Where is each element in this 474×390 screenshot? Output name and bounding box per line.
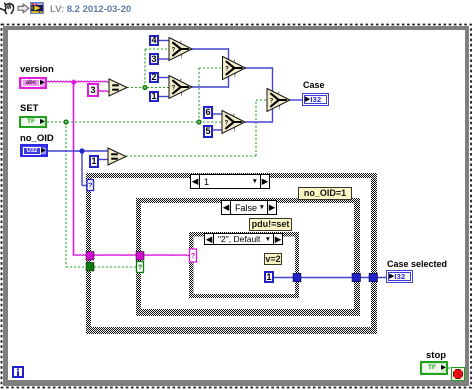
toolbar title text — [50, 4, 131, 15]
indicator Case selected (I32) — [386, 270, 413, 283]
numeric constant 5 — [203, 125, 213, 138]
case selector label (inner) '"2", Default' — [204, 233, 283, 245]
junction boolean dot at Equal1 output branch — [142, 85, 147, 90]
case selector label (middle) "False" — [221, 200, 277, 215]
tunnel boolean on outer case left border — [86, 263, 94, 272]
svg-text:f: f — [181, 92, 183, 98]
select U4 — [222, 111, 245, 134]
terminal SET (boolean control) — [19, 116, 47, 128]
svg-text:f: f — [234, 127, 236, 133]
svg-text:?: ? — [172, 48, 176, 54]
svg-text:?: ? — [88, 181, 93, 190]
select U3 — [223, 57, 246, 80]
wire select U4 output to select U5 — [245, 107, 273, 122]
wire constant 6 to select U4 — [212, 113, 224, 115]
wire boolean vertical up to select U1 selector — [144, 49, 146, 88]
case structure outer (no_OID=1 case) frame — [86, 173, 377, 334]
wire Equal1 output boolean to select U2 selector — [127, 87, 170, 89]
terminal stop (boolean control) — [420, 361, 448, 375]
string constant 3 — [87, 83, 99, 97]
terminal version (string control) — [19, 77, 47, 89]
while loop iteration terminal i — [12, 366, 24, 378]
label Case selected — [387, 259, 447, 269]
tunnel string on outer case left border — [86, 252, 94, 261]
toolbar LabVIEW VI icon — [30, 2, 44, 14]
junction pink node at version branch — [71, 79, 77, 85]
label stop — [426, 350, 446, 361]
wire boolean into select U5 selector — [256, 99, 268, 101]
wire string constant 3 to Equal node — [98, 90, 110, 93]
wire into outer case selector — [82, 185, 88, 187]
label Case — [303, 80, 325, 90]
wire constant 5 to select U4 — [212, 129, 224, 131]
wire select U1 output to select U3 — [192, 49, 229, 61]
svg-text:?: ? — [172, 86, 176, 92]
case selector terminal (inner, string) — [190, 249, 197, 262]
numeric constant 6 — [203, 106, 213, 119]
case selector label (outer) "1" — [190, 174, 270, 189]
tunnel numeric on outer case right border — [369, 273, 378, 282]
wire boolean into select U3 selector — [199, 67, 224, 69]
select U1 — [169, 38, 192, 61]
tunnel string on middle case left border — [136, 252, 144, 261]
label no_OID — [20, 133, 54, 144]
toolbar background — [0, 0, 474, 23]
wire constant 4 to select U1 — [158, 40, 171, 42]
wire SET boolean horizontal into middle case selector — [66, 266, 137, 268]
svg-text:?: ? — [225, 67, 229, 73]
while loop condition terminal (stop sign) — [451, 367, 465, 381]
numeric constant 1 (Equal2 input) — [89, 155, 99, 168]
case selector terminal (outer, numeric) — [87, 180, 94, 191]
numeric constant 1 — [149, 91, 159, 102]
svg-text:f: f — [181, 54, 183, 60]
numeric constant 1 (inner case) — [264, 271, 274, 283]
case structure inner (v=2 case) frame — [189, 232, 299, 298]
indicator Case (I32) — [302, 93, 329, 106]
label version — [20, 64, 54, 75]
wire boolean vertical up to select U5 selector — [255, 100, 257, 156]
case structure middle (pdu!=set case) frame — [136, 198, 360, 316]
wire stop boolean to loop condition terminal — [448, 367, 452, 369]
numeric constant 3 — [149, 53, 159, 65]
free label no_OID=1 — [298, 187, 352, 200]
numeric constant 4 — [149, 35, 159, 46]
wire constant 2 to select U2 — [158, 77, 171, 79]
wire constant 1 to Equal2 node — [97, 159, 110, 161]
junction numeric dot on no_OID wire — [79, 148, 84, 153]
numeric constant 2 — [149, 72, 159, 83]
junction boolean dot at SET branch — [63, 119, 68, 124]
toolbar hand tool icon — [0, 0, 18, 17]
wire no_OID to Equal2 node — [46, 150, 110, 152]
terminal no_OID (U32 control) — [20, 144, 48, 157]
wire constant 3 to select U1 — [158, 58, 171, 60]
wire boolean into select U1 selector — [145, 48, 170, 50]
wire boolean up to select U3 selector — [198, 68, 200, 122]
wire version string horizontal into inner case selector — [73, 254, 190, 257]
wire SET boolean vertical down to case — [65, 122, 67, 267]
svg-text:?: ? — [191, 251, 196, 260]
toolbar run arrow icon — [17, 3, 30, 14]
free label v=2 — [264, 253, 282, 265]
wire constant 1 to select U2 — [158, 96, 171, 98]
svg-text:?: ? — [138, 263, 143, 272]
wire select U5 output to Case indicator — [290, 99, 303, 101]
free label pdu!=set — [249, 218, 292, 231]
select U5 — [267, 89, 290, 112]
wire select U3 output to select U5 — [245, 68, 273, 93]
wire constant 1 through case tunnels to Case selected indicator — [273, 277, 387, 279]
svg-text:?: ? — [270, 99, 274, 105]
label SET — [20, 103, 38, 114]
wire version string vertical down to case tunnels — [73, 82, 75, 256]
junction boolean dot at select U4 selector branch — [196, 119, 201, 124]
svg-text:f: f — [279, 105, 281, 111]
wire SET boolean horizontal to select selectors — [47, 121, 223, 123]
wire version string horizontal to Equal node — [47, 80, 110, 83]
svg-text:?: ? — [225, 121, 229, 127]
select U2 — [169, 76, 192, 99]
tunnel numeric on inner case right border — [293, 273, 301, 282]
wire Equal2 output boolean horizontal — [126, 155, 256, 157]
wire no_OID vertical down to outer case selector — [81, 151, 83, 186]
tunnel numeric on middle case right border — [352, 273, 361, 282]
Equal node U6 (version=3) — [109, 79, 127, 96]
svg-text:f: f — [234, 73, 236, 79]
case selector terminal (middle, boolean) — [137, 262, 144, 273]
Equal node U7 (no_OID=1) — [108, 148, 126, 165]
wire select U2 output to select U3 — [192, 77, 229, 87]
